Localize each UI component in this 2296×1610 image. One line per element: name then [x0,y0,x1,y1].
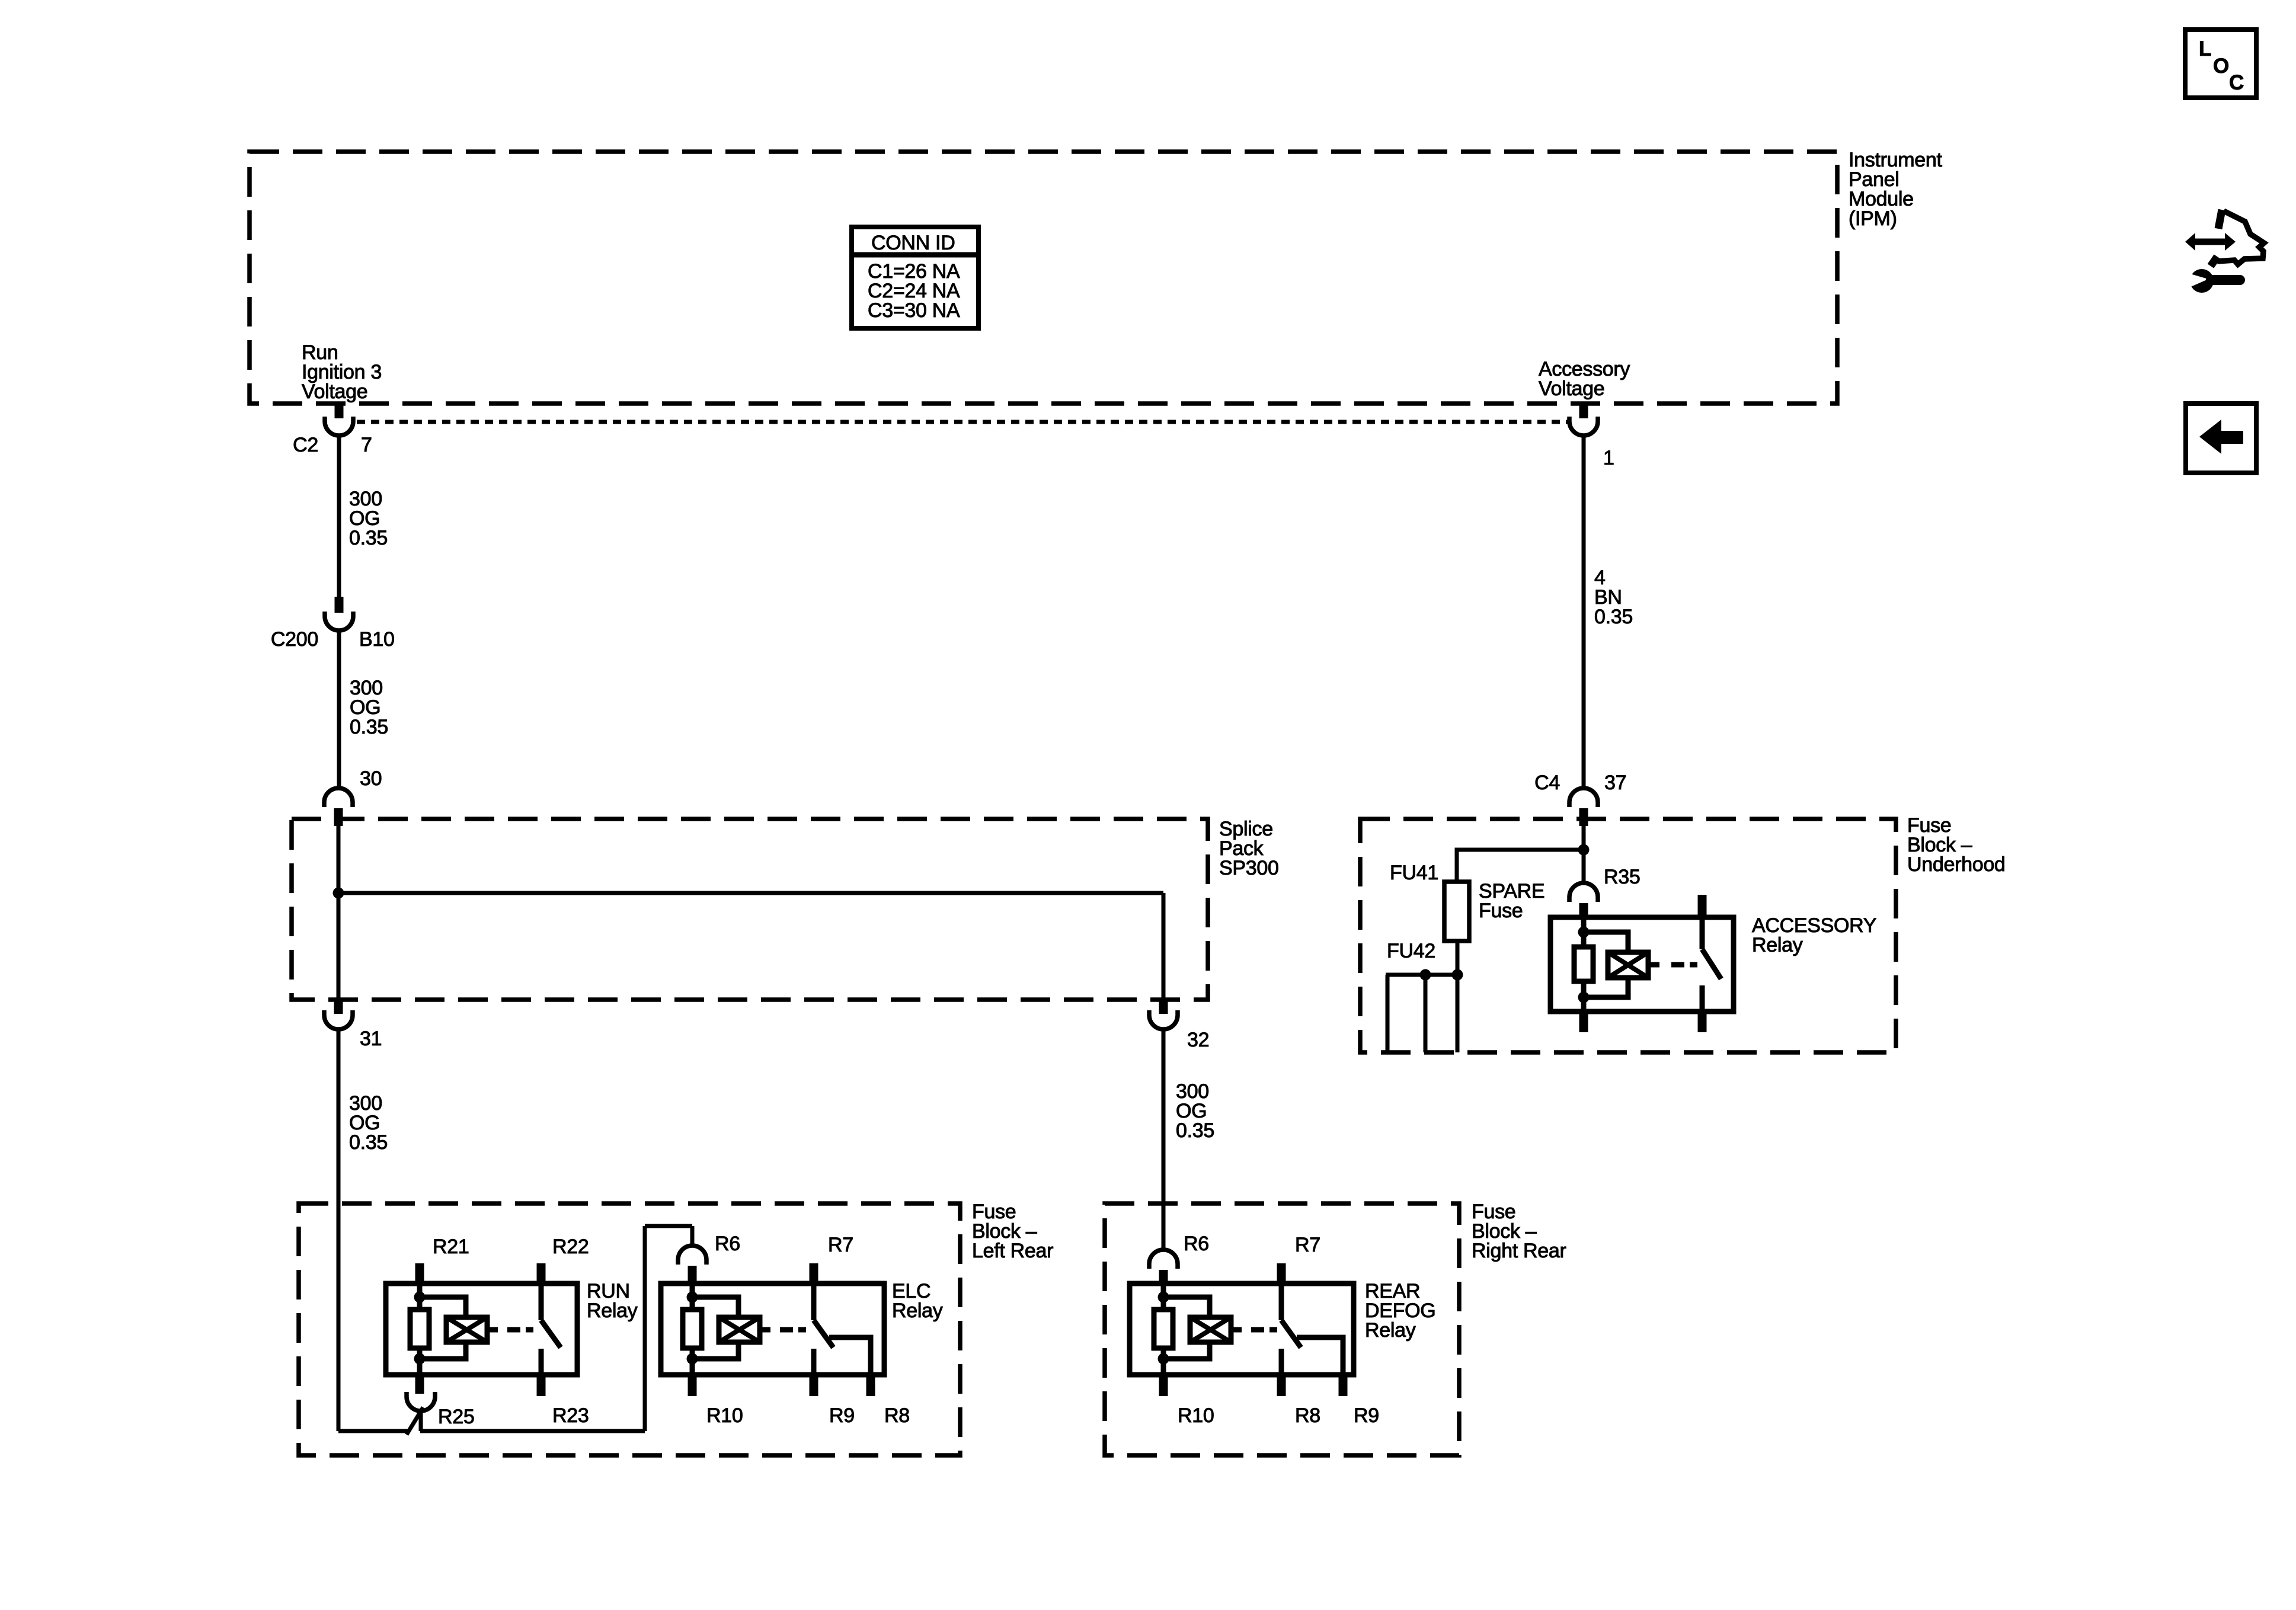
in-line connector C200 pin B10 [325,597,353,630]
label: Splice Pack SP300 [1219,818,1279,879]
wire: ELC parallel branch bottom [692,1342,738,1359]
wire: RUN parallel branch bottom [420,1342,466,1359]
svg-text:Underhood: Underhood [1907,853,2006,876]
node: ELC coil bottom junction [687,1353,698,1365]
node: defog coil top junction [1158,1292,1169,1303]
svg-text:32: 32 [1187,1029,1209,1051]
node: splice junction SP300 [333,888,344,899]
svg-text:Relay: Relay [892,1299,943,1322]
label: Fuse Block - Right Rear [1472,1201,1566,1262]
wire: ELC parallel branch top [692,1297,738,1317]
wire: RUN coil right lead [487,1327,498,1333]
switch: defog lower contact [1279,1349,1284,1375]
wire: defog coil right lead [1231,1327,1242,1333]
wire: relay coil leg bottom [1581,981,1587,1012]
pin R10 (Rear Defog) [1159,1375,1168,1396]
mechanical linkage (dashed) [1671,962,1697,968]
label: ACCESSORY Relay [1752,914,1876,956]
pin R8 (ELC) [866,1375,875,1396]
wire: FU42 bus [1386,973,1457,977]
wire: relay coil leg top [1581,917,1587,948]
svg-text:R35: R35 [1604,866,1640,888]
label: SPARE Fuse [1479,880,1544,922]
svg-text:Relay: Relay [1752,934,1803,956]
pin R7 (ELC) [810,1263,818,1283]
svg-text:Voltage: Voltage [1539,377,1604,400]
switch: RUN lower contact [539,1349,544,1375]
connector pin 1 (IPM, Accessory Voltage) [1569,404,1598,436]
wire: RUN coil leg bottom [417,1348,423,1375]
wire: defog parallel branch top [1163,1297,1210,1317]
switch blade [1702,949,1721,979]
relay coil (box with X) ELC [719,1317,760,1342]
mechanical linkage (dashed) Rear Defog [1251,1327,1277,1333]
wire: RUN coil leg top [417,1283,423,1311]
relay K: RUN Relay box [386,1283,577,1375]
wire: RUN parallel branch top [420,1297,466,1317]
svg-text:(IPM): (IPM) [1849,207,1897,230]
wire: FU41 lower lead [1456,941,1460,1052]
pin: relay bottom left [1579,1012,1588,1032]
pin R10 (ELC) [688,1375,697,1396]
wire: splice bus vertical to terminal 32 [1162,893,1166,1000]
wire: drop into R6 connector [690,1226,695,1246]
relay coil (box with X) [1608,952,1648,978]
connector terminal 30 (into splice pack SP300) [324,788,353,826]
label: ELC Relay [892,1280,943,1322]
svg-text:SP300: SP300 [1219,857,1279,879]
Fuse Block - Left Rear box (dashed) [299,1204,960,1455]
pin R9 (ELC) [810,1375,818,1396]
resistor (RUN relay) [410,1310,429,1348]
pin R7 (Rear Defog) [1277,1263,1286,1283]
svg-text:C2: C2 [293,434,318,456]
svg-text:B10: B10 [359,628,395,651]
wire: 300 OG 0.35 from 32 to Fuse Block Right Rear [1162,1029,1166,1250]
label: RUN Relay [587,1280,638,1322]
resistor (Rear Defog relay) [1154,1310,1173,1348]
connector C2 pin 7 (IPM, Run Ignition 3 Voltage) [325,404,353,436]
wire: splice bus horizontal [338,891,1163,895]
svg-text:R9: R9 [829,1404,855,1427]
switch: ELC lower contact [811,1349,817,1375]
pin R22 [537,1263,546,1283]
wire: splice bus vertical (terminal 30 to 31) [337,826,341,1000]
svg-text:C: C [2229,71,2244,94]
svg-text:R21: R21 [433,1235,469,1258]
wire: stub down-left [1386,975,1390,1052]
wire: 300 OG 0.35 from 31 to Fuse Block Left Rear [337,1029,341,1431]
Fuse Block - Right Rear box (dashed) [1105,1204,1459,1455]
pin R25 [415,1375,424,1394]
svg-text:R9: R9 [1354,1404,1379,1427]
LOC legend box (top-right) [2185,30,2256,98]
switch: lower contact [1700,985,1705,1012]
resistor (relay coil suppression) [1574,947,1593,981]
svg-text:C3=30 NA: C3=30 NA [868,299,960,322]
svg-text:R22: R22 [552,1235,589,1258]
node: ELC coil top junction [687,1292,698,1303]
switch blade Rear Defog [1281,1320,1301,1347]
svg-text:Fuse: Fuse [1479,900,1523,922]
relay K: REAR DEFOG Relay box [1130,1283,1354,1375]
node: RUN coil bottom junction [414,1353,426,1365]
wire label: 300 OG 0.35 [349,488,388,549]
splice pack SP300 box (dashed) [292,819,1208,1000]
wire label: 300 OG 0.35 [1176,1080,1214,1142]
svg-text:R7: R7 [828,1234,853,1256]
wire: branch to FU41 spare fuse [1457,850,1584,882]
relay coil (box with X) RUN [446,1317,487,1342]
wire: riser between relays [643,1226,647,1431]
label: REAR DEFOG Relay [1365,1280,1435,1342]
mechanical linkage (dashed) RUN [507,1327,533,1333]
connector R35 (Accessory Relay coil feed) [1569,883,1598,918]
node: RUN coil top junction [414,1292,426,1303]
wire: defog switch output to R9 [1297,1337,1343,1375]
svg-text:R6: R6 [1184,1233,1209,1255]
wire: defog coil leg bottom [1161,1348,1166,1375]
svg-text:Right Rear: Right Rear [1472,1240,1566,1262]
wire: 300 OG 0.35 from C2:7 to C200 [337,436,341,597]
node: coil bottom junction [1578,992,1590,1003]
node: coil top junction [1578,927,1590,938]
connector R25 (cup) [407,1392,435,1411]
node: FU42 junction [1420,969,1431,981]
svg-text:Voltage: Voltage [302,380,367,403]
wire label: 300 OG 0.35 [350,677,388,738]
relay K: ELC Relay box [661,1283,884,1375]
wire: bottom run continued to ELC riser [420,1429,645,1433]
svg-text:O: O [2213,55,2229,78]
svg-text:Relay: Relay [1365,1319,1416,1342]
svg-text:0.35: 0.35 [1176,1119,1214,1142]
mechanical linkage (dashed) ELC [780,1327,806,1333]
label: Fuse Block - Underhood [1907,814,2006,876]
svg-text:0.35: 0.35 [350,716,388,738]
pin: relay top right [1698,895,1707,917]
wire: ELC coil leg top [690,1283,695,1311]
connector R6 (ELC feed) [678,1246,706,1283]
svg-text:R8: R8 [1295,1404,1320,1427]
svg-text:7: 7 [361,434,372,456]
svg-text:0.35: 0.35 [1594,606,1633,628]
back-arrow navigation box (right side) [2186,404,2256,473]
wire: R25 terminal drop [419,1411,423,1431]
svg-text:1: 1 [1603,447,1614,469]
wire: defog parallel branch bottom [1163,1342,1210,1359]
wire: stub down-mid [1424,975,1428,1052]
label: Instrument Panel Module (IPM) [1849,149,1942,230]
relay coil (box with X) Rear Defog [1190,1317,1231,1342]
node: junction to fuse branch [1578,844,1590,856]
wire: 300 OG 0.35 from C200 to splice pack [337,630,341,788]
vehicle data-link / service icon [2185,210,2264,293]
switch: fixed contact from top pin [1700,917,1705,949]
relay U: ACCESSORY Relay box [1550,917,1734,1012]
svg-text:R6: R6 [715,1233,740,1255]
connector R6 (Rear Defog feed) [1149,1250,1178,1283]
fuse FU41 SPARE Fuse [1444,882,1469,941]
svg-text:L: L [2199,37,2211,60]
in-line connector boundary line C2 (dotted) [357,420,1568,424]
wire: coil parallel branch top [1584,932,1628,952]
node: defog coil bottom junction [1158,1353,1169,1365]
label: Accessory Voltage (IPM output) [1539,358,1630,400]
pin R21 [415,1263,424,1283]
svg-text:0.35: 0.35 [349,1131,388,1154]
pin R9 (Rear Defog) [1339,1375,1348,1396]
switch: RUN fixed contact [539,1283,544,1320]
wire: ELC coil leg bottom [690,1348,695,1375]
resistor (ELC relay) [683,1310,702,1348]
pin: relay bottom right [1698,1012,1707,1032]
svg-text:CONN ID: CONN ID [871,232,955,254]
wire: ELC switch output to R8 [829,1337,871,1375]
wire label: 300 OG 0.35 [349,1092,388,1154]
connector terminal 32 (splice pack output) [1149,1000,1178,1029]
svg-text:37: 37 [1604,772,1626,794]
wire label: 4 BN 0.35 [1594,566,1633,628]
node: FU41 lead junction [1452,969,1463,981]
wire: ELC coil right lead [760,1327,770,1333]
CONN ID table [852,227,978,328]
wire: coil right lead [1648,962,1659,968]
svg-text:FU42: FU42 [1387,940,1435,962]
pin R23 [537,1375,546,1396]
module box: Instrument Panel Module (IPM), dashed outline [250,152,1837,404]
wire: top run to ELC R6 [645,1224,692,1228]
label: Fuse Block - Left Rear [972,1201,1053,1262]
switch: ELC fixed contact [811,1283,817,1320]
svg-text:Relay: Relay [587,1299,638,1322]
svg-text:R10: R10 [1178,1404,1214,1427]
svg-text:C4: C4 [1534,772,1560,794]
Fuse Block - Underhood box (dashed) [1360,819,1896,1052]
svg-text:Left Rear: Left Rear [972,1240,1053,1262]
pin R8 (Rear Defog) [1277,1375,1286,1396]
svg-text:FU41: FU41 [1390,862,1438,884]
svg-text:C200: C200 [271,628,318,651]
svg-text:31: 31 [360,1028,382,1050]
switch blade RUN [541,1320,561,1347]
connector C4 terminal 37 (into Fuse Block Underhood) [1569,788,1598,826]
wire: coil parallel branch bottom [1584,978,1628,997]
wire: defog coil leg top [1161,1283,1166,1311]
wire: 4 BN 0.35 from pin 1 to C4 [1582,436,1586,788]
switch: defog fixed contact [1279,1283,1284,1320]
svg-text:R25: R25 [438,1406,474,1428]
svg-text:R8: R8 [884,1404,910,1427]
wire: R25 diagonal lead [407,1407,423,1435]
wire: C4 terminal into block [1582,826,1586,883]
wire: bottom run from 31 wire to R25 lead [338,1429,408,1433]
label: Run Ignition 3 Voltage (IPM output) [302,341,382,403]
svg-text:R7: R7 [1295,1234,1320,1256]
connector terminal 31 (splice pack output) [324,1000,353,1029]
svg-text:30: 30 [360,767,382,790]
switch blade ELC [814,1320,833,1347]
svg-text:R23: R23 [552,1404,589,1427]
svg-text:R10: R10 [706,1404,743,1427]
svg-text:0.35: 0.35 [349,527,388,549]
